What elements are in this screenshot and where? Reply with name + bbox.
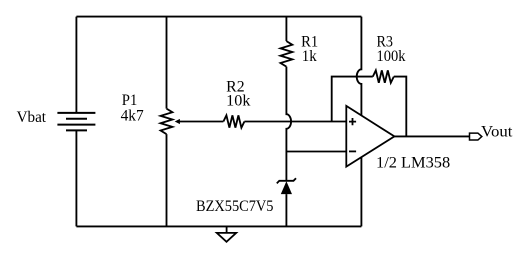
wire node A to op-amp inverting input	[286, 151, 346, 153]
svg-text:100k: 100k	[377, 48, 406, 65]
svg-text:10k: 10k	[226, 93, 251, 110]
wire battery top lead and left riser to top rail	[75, 17, 77, 113]
svg-text:BZX55C7V5: BZX55C7V5	[196, 198, 274, 215]
svg-text:1k: 1k	[302, 48, 317, 65]
resistor R1	[281, 41, 293, 67]
svg-text:1/2 LM358: 1/2 LM358	[376, 154, 451, 171]
wire R3 to output node	[394, 77, 407, 137]
op-amp U1 1/2 LM358	[346, 106, 394, 167]
svg-text:4k7: 4k7	[121, 108, 144, 125]
wire op-amp V+ pin from top rail, hops over feedback wire	[357, 17, 362, 118]
resistor R3	[373, 70, 394, 82]
wire op-amp V- pin to bottom rail	[360, 152, 362, 226]
wire P1 top lead from top rail	[166, 17, 168, 109]
terminal Vout	[470, 133, 482, 140]
wire top rail to R1	[285, 17, 287, 41]
svg-text:Vbat: Vbat	[17, 109, 47, 126]
wire bottom rail	[76, 225, 361, 227]
wire op-amp output to Vout terminal	[394, 135, 469, 137]
potentiometer P1	[161, 109, 180, 135]
svg-text:Vout: Vout	[481, 124, 513, 141]
wire battery bottom lead to bottom rail	[75, 130, 77, 226]
wire feedback from + input wire up and right to R3	[332, 77, 373, 122]
wire R2 to op-amp non-inverting input	[244, 121, 346, 123]
wire zener anode to bottom rail	[285, 194, 287, 226]
ground	[217, 226, 236, 241]
zener diode D1	[277, 178, 296, 194]
wire P1 wiper to R2	[177, 121, 223, 123]
wire R1 to zener cathode, hops over + input wire, junction node A	[286, 67, 291, 180]
resistor R2	[223, 115, 244, 127]
wire top rail	[76, 16, 361, 18]
battery Vbat	[57, 113, 95, 130]
wire P1 bottom lead to bottom rail	[166, 134, 168, 226]
